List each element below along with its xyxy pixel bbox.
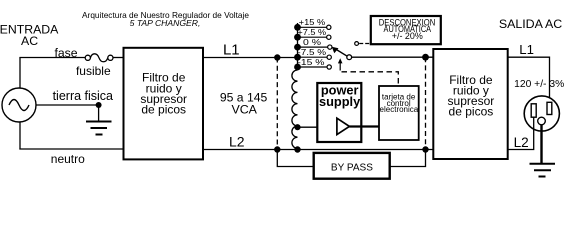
tap terminal +7.5% [327,35,331,39]
switch arm SW1 [332,47,352,60]
ground GND1 [86,105,112,135]
desconexion relay contact [355,42,371,46]
wire switch output [352,56,434,58]
svg-text:SALIDA AC: SALIDA AC [499,17,562,31]
wire bypass right [390,150,426,167]
wire L2 right [507,117,534,149]
fuse F1 [85,54,113,62]
wire bypass left drop [277,150,313,167]
svg-text:VCA: VCA [231,102,257,116]
svg-text:5 TAP CHANGER,: 5 TAP CHANGER, [130,18,201,28]
svg-text:neutro: neutro [51,152,85,166]
node L1 bypass junction [274,54,280,60]
svg-text:L1: L1 [519,42,534,57]
svg-text:supply: supply [319,94,361,109]
AC source V1 [2,88,36,122]
box power supply U2 [317,83,361,142]
svg-text:+15 %: +15 % [299,17,326,27]
tap wire -7.5% [298,56,329,58]
box tarjeta de control [379,86,419,140]
svg-text:L2: L2 [514,135,529,150]
tap terminal -15% [327,65,331,69]
tap wire +15% [298,26,329,28]
wire power supply to tarjeta [349,125,379,127]
svg-text:fusible: fusible [76,64,111,78]
svg-text:0 %: 0 % [303,37,322,47]
node winding bottom on L2 [294,146,300,152]
wire neutro vertical [19,122,21,150]
tap wire +7.5% [298,36,329,38]
wire fase horizontal [19,57,85,59]
svg-text:L1: L1 [223,41,240,58]
amplifier triangle [337,118,350,134]
outlet socket J1 [524,96,559,131]
svg-text:-15 %: -15 % [297,57,325,67]
wire outlet ground [540,125,542,163]
svg-text:de picos: de picos [449,105,494,119]
wire dashed control to tarjeta [342,72,399,86]
tap wire 0% [298,46,329,48]
ground GND2 [530,164,556,177]
node bypass left on L2 [274,146,280,152]
svg-text:+7.5 %: +7.5 % [297,27,326,37]
svg-text:120 +/- 3%: 120 +/- 3% [514,79,564,90]
node tierra junction [96,102,102,108]
svg-text:de picos: de picos [141,103,186,117]
svg-text:L2: L2 [229,134,245,150]
transformer T1 winding [292,70,298,148]
node winding feed [294,124,300,130]
transformer T1 taps column [294,23,301,70]
svg-text:tierra fisica: tierra fisica [53,89,113,103]
wire fase vertical [19,58,21,89]
wire tierra fisica [36,104,99,106]
box BY PASS [314,153,390,179]
wire winding to power supply [298,126,338,128]
wire L1 [203,57,298,59]
wire L1 right [507,57,550,102]
filter box left U1 [124,48,204,160]
switch motion arrow [338,58,343,70]
wire dashed bypass left [276,58,278,150]
wire fuse to filter [113,57,124,59]
wire dashed bypass right [425,57,427,149]
wire neutro horizontal [19,148,124,150]
tap terminal -7.5% [327,55,331,59]
tap terminal +15% [327,25,331,29]
svg-text:AC: AC [21,34,38,48]
box DESCONEXION AUTOMATICA [371,16,441,44]
tap terminal 0% [328,45,332,49]
svg-text:fase: fase [54,46,77,60]
svg-text:+/- 20%: +/- 20% [392,31,423,41]
svg-text:electronica: electronica [380,105,419,114]
svg-text:BY PASS: BY PASS [331,163,373,174]
node bypass right on L2 [422,146,428,152]
svg-text:-7.5 %: -7.5 % [297,47,326,57]
wire L2 [203,149,434,151]
node switch output junction [422,54,429,61]
filter box right U3 [433,49,507,159]
tap wire -15% [298,66,329,68]
